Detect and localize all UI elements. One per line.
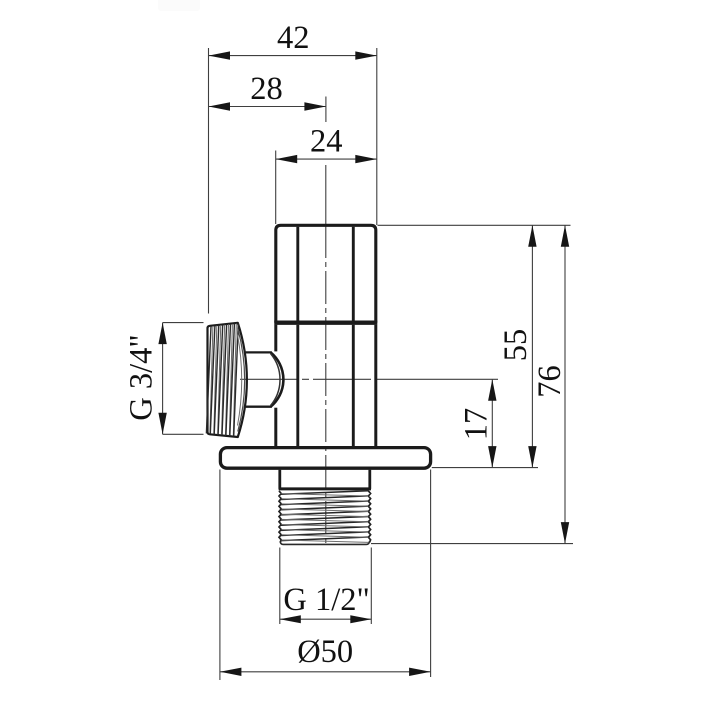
svg-text:24: 24 — [310, 124, 343, 160]
svg-text:G 1/2": G 1/2" — [283, 582, 369, 618]
svg-text:76: 76 — [532, 365, 568, 398]
svg-text:Ø50: Ø50 — [297, 634, 353, 670]
svg-text:42: 42 — [277, 20, 310, 56]
svg-text:17: 17 — [458, 408, 494, 441]
svg-text:28: 28 — [250, 71, 283, 107]
svg-text:G 3/4": G 3/4" — [124, 334, 160, 420]
svg-text:55: 55 — [498, 329, 534, 362]
